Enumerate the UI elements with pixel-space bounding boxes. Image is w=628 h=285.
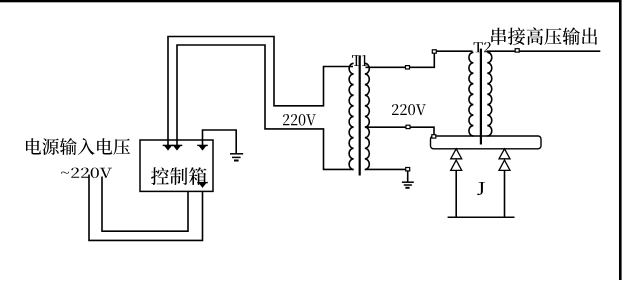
wire T1 secondary middle tap [366,126,406,128]
label J [477,182,485,195]
label 串接高压输出 [491,27,597,45]
label ~220V input [61,168,112,178]
terminal square on T2 base bar [432,135,436,138]
wire control box to ground [203,130,237,153]
frame top border line [0,0,622,2]
arrow into control box (wire 2) [172,144,183,146]
label 控制箱 (control box) [151,167,207,185]
spark gap left column (double arrows + wire) [451,149,462,159]
wire T1 middle tap to T2 base (right then down) [410,127,434,135]
gap bottom rail wire [448,216,515,218]
arrow into control box (wire 3, ground side) [197,144,208,146]
arrow into control box (wire 1) [163,144,174,146]
spark gap right column (double arrows + wire) [499,149,510,159]
ground symbol at T1 secondary [402,182,414,188]
control box 控制箱 outline [140,140,213,191]
label 电源输入电压 (power input voltage) [26,138,130,155]
terminal square T1 middle tap [406,125,410,128]
wire control box output outer (to T1 primary top): up, right, down, right, up to coil [168,37,353,146]
wire T1 secondary bottom tap [365,168,406,170]
terminal square on HV output line [515,49,519,52]
transformer T2 primary coil (left) [469,52,474,136]
label T2 [474,42,492,52]
wire T2 input square to T2 primary top [436,50,472,52]
wire HV output line right part [519,50,600,52]
label T1 [352,55,367,66]
wire input phase outer U (box bottom to input terminal) [89,175,203,241]
wire T1 bottom tap to ground [407,171,409,182]
wire control box output inner (to T1 primary bottom): up, right, down, right, down to coil [177,45,354,169]
transformer T1 secondary coil (right) [365,63,370,169]
frame right border line [619,0,622,280]
transformer T1 primary coil (left) [349,63,354,169]
T2 base bar (tank) [431,136,542,149]
label 220V secondary [392,104,426,115]
terminal square T1 top tap [406,66,410,69]
wire T1 secondary top tap [366,66,406,68]
label 220V primary [283,114,316,126]
wire T1 top tap to T2 input (right then up) [410,53,435,67]
wire input phase inner U (box bottom to input terminal) [102,177,188,232]
transformer T2 core [480,49,482,145]
transformer T2 secondary coil (right) [487,52,492,136]
terminal square T2 input top [432,50,436,53]
transformer T1 core [359,56,361,176]
wire HV output line left part [487,50,516,52]
terminal square T1 bottom tap [406,168,410,171]
arrow inside control box at bottom output [197,182,208,184]
ground symbol at control box [230,154,243,161]
